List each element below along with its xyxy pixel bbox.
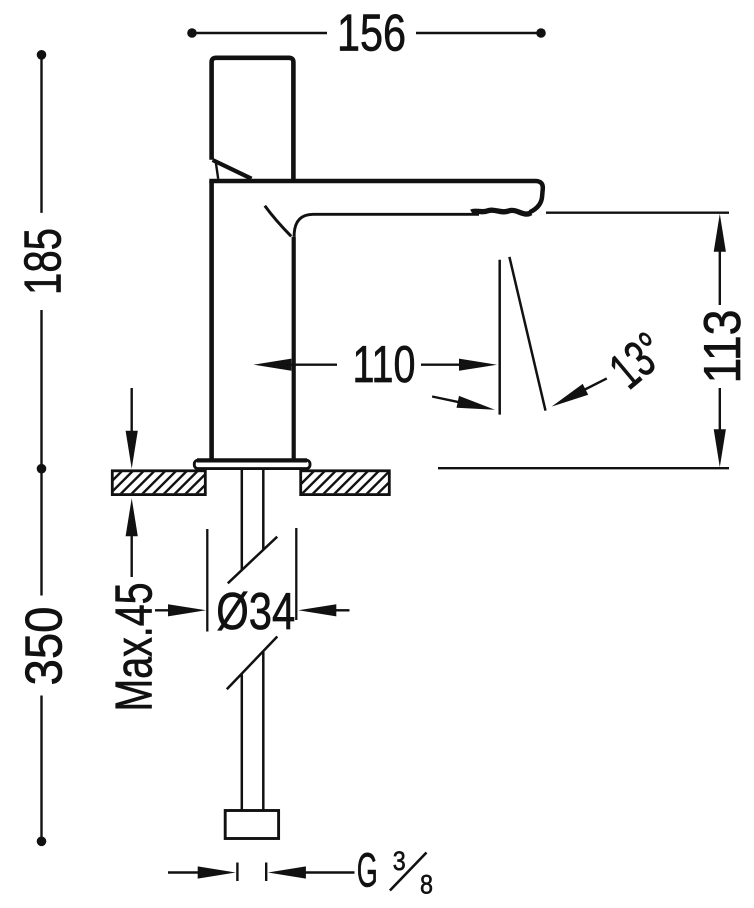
supply pipe left line upper (241, 469, 244, 570)
dimension 185 line lower segment (40, 310, 42, 469)
dimension 350 bottom dot (37, 837, 47, 847)
113 bottom reference line (438, 467, 729, 469)
dimension 185 top dot (37, 50, 47, 60)
dimension 156 right dot (536, 28, 546, 38)
svg-text:Max.45: Max.45 (106, 583, 164, 712)
svg-text:8: 8 (420, 870, 433, 900)
body left edge (209, 181, 214, 459)
dim 110 left arrow (253, 359, 291, 371)
svg-text:Ø34: Ø34 (216, 583, 295, 641)
dim 113 line upper (719, 251, 721, 305)
svg-text:185: 185 (15, 228, 73, 295)
supply pipe right line lower (262, 652, 265, 811)
dimension 156 left dot (187, 28, 197, 38)
dimension 350 line upper segment (40, 469, 42, 596)
dim 110 line right (421, 364, 460, 366)
body shoulder line (265, 206, 291, 237)
supply pipe left line lower (241, 675, 244, 812)
dimension 156 line left segment (193, 32, 327, 34)
body right edge (292, 237, 296, 459)
dia34 right extension line (295, 528, 297, 620)
pipe break mark lower (227, 637, 277, 690)
base plate top edge (197, 458, 307, 462)
lever notch diagonal (213, 160, 252, 179)
G38 right arrow (305, 871, 355, 873)
dim 113 line lower (719, 388, 721, 430)
thread fraction slash (390, 853, 427, 891)
dimension 156 line right segment (416, 32, 540, 34)
dia34 right arrow (336, 609, 350, 611)
svg-text:3: 3 (393, 846, 406, 876)
stream angled line (509, 257, 545, 411)
aerator squiggle (472, 210, 532, 214)
dim 110 line left (291, 364, 337, 366)
supply pipe right line upper (262, 469, 265, 550)
dim 113 arrow up (714, 214, 726, 252)
faucet lever handle outline (212, 58, 294, 181)
dimension 185 line upper segment (40, 55, 42, 213)
base plate (194, 460, 310, 468)
dim 113 arrow down (714, 429, 726, 467)
dimension 350 line lower segment (40, 696, 42, 842)
countertop left slab with hatching (96, 468, 233, 497)
svg-text:113: 113 (694, 310, 752, 384)
svg-text:13°: 13° (599, 322, 677, 400)
dim 110 right arrow (459, 359, 497, 371)
lever notch inner line (216, 161, 219, 179)
113 top reference line (546, 211, 729, 213)
svg-text:G: G (357, 843, 378, 897)
G38 left arrow (168, 871, 202, 873)
svg-text:156: 156 (337, 4, 406, 62)
Max.45 arrow down (126, 431, 138, 469)
Max.45 arrow up (126, 498, 138, 536)
pipe break mark upper (228, 537, 277, 584)
svg-text:350: 350 (16, 607, 74, 686)
Max.45 dim line upper (130, 388, 132, 431)
angle leader arrow (582, 378, 607, 391)
countertop right slab with hatching (288, 468, 414, 497)
spout lower edge with fillet (294, 214, 479, 237)
Max.45 dim line lower (130, 536, 132, 577)
svg-text:110: 110 (353, 336, 416, 394)
connector block (225, 811, 278, 839)
stream vertical line (498, 260, 501, 415)
dimension middle dot (37, 464, 47, 474)
dia34 left arrow (155, 609, 172, 611)
G38 right tick (265, 863, 267, 882)
stream leader arrow (432, 397, 462, 403)
dia34 left extension line (206, 529, 208, 632)
G38 left tick (236, 863, 238, 882)
spout top edge and tip (209, 181, 543, 212)
